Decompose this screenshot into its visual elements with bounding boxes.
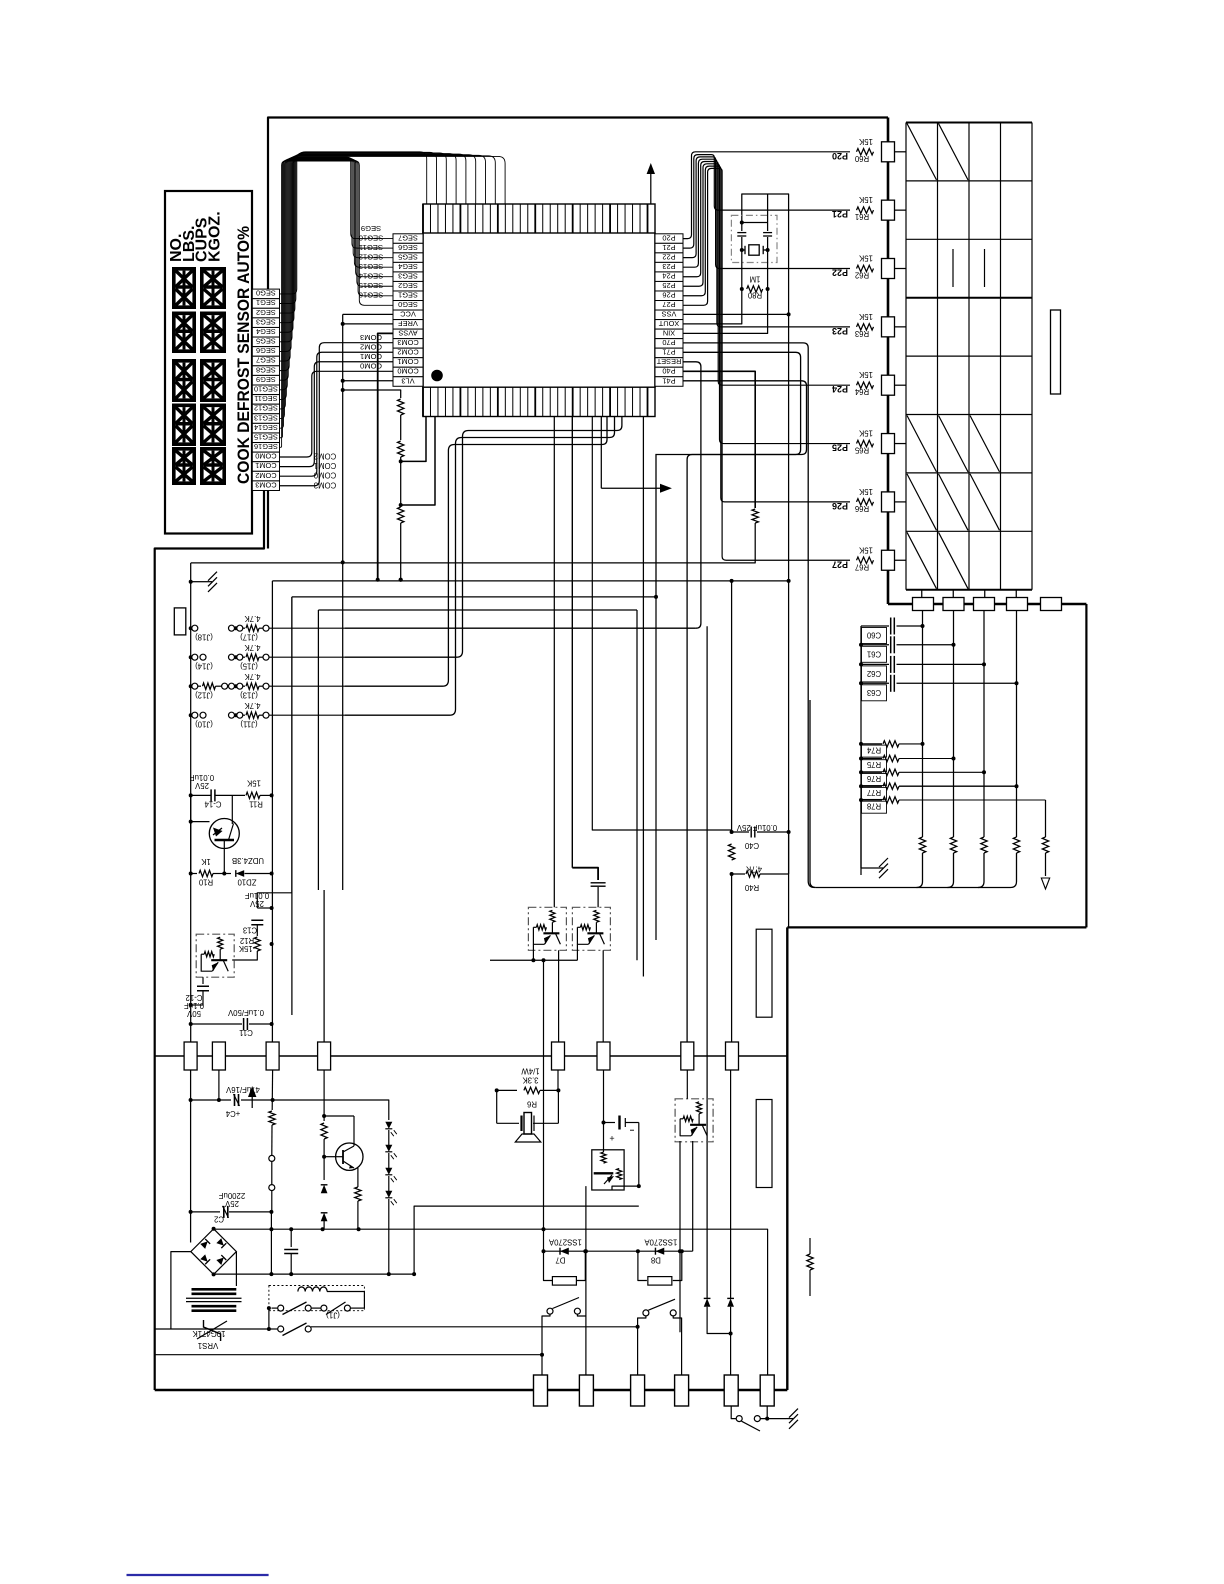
diode D7 1SS270A [542,1238,588,1286]
svg-text:COM3: COM3 [255,480,276,489]
node junction [341,560,345,564]
diode D8 1SS270A [636,1238,684,1286]
svg-text:15K: 15K [858,195,873,204]
svg-text:VSS: VSS [662,310,677,319]
wire [271,1125,273,1156]
svg-text:VREF: VREF [398,319,418,328]
capacitor C13 0.01uF 25V [243,891,274,936]
node junction [399,459,403,463]
wire [557,1070,559,1090]
resistor R67 15K [832,545,874,571]
connector pad [882,259,895,279]
svg-text:SEG11: SEG11 [359,243,383,252]
svg-text:COOK DEFROST SENSOR AUTO%: COOK DEFROST SENSOR AUTO% [234,226,253,484]
wire [730,1070,732,1298]
resistor R78 [859,797,1046,813]
resistor R64 15K [832,370,874,396]
svg-text:P20: P20 [832,151,848,161]
svg-text:4.7K: 4.7K [244,614,261,623]
wire [786,927,788,1390]
wire VSS down [788,314,790,927]
node junction [341,388,345,392]
node junction [584,1249,588,1253]
wire [553,417,555,908]
connector pad left [174,608,186,635]
wire [731,1406,736,1419]
svg-text:10G471K: 10G471K [192,1329,226,1338]
wire RESET [683,362,701,628]
wire [323,1221,325,1229]
wire [585,1186,587,1375]
svg-text:SEG10: SEG10 [359,233,383,242]
svg-text:1/4W: 1/4W [521,1067,540,1076]
svg-text:R40: R40 [744,883,759,892]
boundary pads [184,1042,738,1070]
svg-text:4.7K: 4.7K [244,643,261,652]
svg-text:COM3: COM3 [397,338,418,347]
wire [345,627,696,629]
wire [273,1100,389,1110]
svg-text:P71: P71 [662,348,675,357]
ground [861,800,876,868]
svg-text:SEG2: SEG2 [256,308,276,317]
svg-text:SEG16: SEG16 [254,442,278,451]
wire tap [401,417,435,506]
capacitor CX1 [741,223,743,232]
switch SW2 [636,1299,682,1375]
wire Q1 emitter [223,840,225,874]
resistor R10 1K [189,857,225,887]
resistor R77 [859,783,1019,799]
connector pad [882,550,895,570]
wire [311,1326,638,1328]
capacitor C14 0.01uF 25V [189,773,245,809]
svg-text:R61: R61 [855,212,869,221]
svg-text:P23: P23 [832,326,848,336]
svg-text:0.1uF: 0.1uF [184,1001,204,1010]
svg-text:P27: P27 [662,300,675,309]
svg-text:C60: C60 [866,631,881,640]
svg-text:AVSS: AVSS [398,329,417,338]
svg-text:SEG2: SEG2 [398,281,418,290]
svg-text:R11: R11 [249,800,263,809]
varistor VRS1 10G471K [192,1320,227,1350]
wire bus B [272,580,788,582]
resistor R63 15K [832,312,874,338]
U1 right pin boxes [655,233,683,386]
svg-text:RESET: RESET [656,357,681,366]
svg-text:SEG6: SEG6 [256,346,276,355]
svg-text:COM2: COM2 [397,348,418,357]
svg-text:SEG12: SEG12 [254,404,278,413]
svg-text:C11: C11 [239,1028,253,1037]
connector pad [882,375,895,395]
node junction [787,579,791,583]
resistor R74 [859,741,925,757]
wire P71 to diode [706,626,708,1298]
transistor Q6 (digital) dashed [675,1099,713,1142]
svg-text:25V: 25V [224,1199,239,1208]
node junction [678,1249,682,1253]
svg-text:P21: P21 [662,243,675,252]
wire [232,951,257,960]
wire [155,1389,788,1391]
wire C6x left rail [860,626,862,875]
svg-text:KGOZ.: KGOZ. [206,211,223,262]
svg-text:XIN: XIN [663,329,675,338]
capacitor CX2 [767,194,769,231]
microcontroller U1 body [423,204,655,417]
diode pair [704,1298,711,1306]
svg-text:SEG13: SEG13 [254,413,278,422]
connector pad [882,200,895,220]
svg-text:R77: R77 [867,788,881,797]
svg-text:(J15): (J15) [240,662,258,671]
wire [190,795,192,873]
svg-text:SEG0: SEG0 [398,300,418,309]
resistor ladder R1 [398,399,404,415]
wire [887,118,890,605]
svg-text:P40: P40 [662,367,675,376]
node VSS junction [787,312,791,316]
wire [271,581,273,1042]
svg-text:R76: R76 [867,774,881,783]
svg-text:SEG5: SEG5 [398,252,418,261]
jumper row (J10) (J11) 4.7K [189,701,345,729]
wire VCC [343,313,393,315]
wire [679,1141,681,1332]
wire [345,417,622,658]
resistor R6 3.3K 1/4W [495,1067,561,1109]
svg-text:SEG8: SEG8 [256,365,276,374]
svg-text:COM1: COM1 [255,461,276,470]
wire Q1 collector [231,795,233,824]
svg-text:C-12: C-12 [186,993,203,1002]
wire [787,926,1086,928]
buzzer BZ1 [497,1113,559,1143]
jumper row (J14) (J15) 4.7K [189,643,345,671]
wire bridge AC left [171,1252,191,1311]
svg-text:0.01uF: 0.01uF [190,773,215,782]
node junction [269,1227,273,1231]
wire XOUT [683,289,742,324]
svg-text:15K: 15K [858,487,873,496]
svg-text:R62: R62 [855,271,869,280]
resistor ladder R3 [398,507,404,523]
connector bar [1051,310,1061,394]
wire [612,1186,639,1190]
microcontroller U1 inner body [423,233,655,387]
resistor ladder R2 [398,441,404,457]
node junction [189,820,193,824]
wire [324,1156,335,1158]
svg-text:SEG14: SEG14 [254,423,278,432]
capacitor C12 0.1uF 50V [184,986,209,1018]
wire XIN [683,289,768,333]
wire matrix column 4 [1016,611,1018,838]
svg-text:UDZ4.3B: UDZ4.3B [232,856,264,865]
wire [686,1070,688,1099]
svg-text:P23: P23 [662,262,675,271]
switch SW3 [736,1406,786,1431]
svg-text:VCC: VCC [400,310,416,319]
transistor Q2 (digital) dashed [196,934,234,977]
display digit row 1 [172,267,196,309]
wire Q1 base [191,821,210,823]
display digit row 3 [172,359,196,402]
arrow down [1041,878,1049,889]
node junction [399,503,403,507]
key matrix [906,123,1032,590]
svg-text:P21: P21 [832,209,848,219]
svg-text:(J1): (J1) [326,1311,340,1320]
svg-text:P22: P22 [662,252,675,261]
svg-text:C2: C2 [214,1215,224,1224]
wire bus lower [214,1273,415,1275]
svg-text:47uF/16V: 47uF/16V [225,1085,260,1094]
wire [642,417,644,977]
resistor [321,1123,327,1139]
svg-text:SEG13: SEG13 [359,262,383,271]
arrow 5V [251,1093,253,1108]
wire bus C [292,596,656,598]
svg-text:1K: 1K [200,857,210,866]
svg-text:COM0: COM0 [360,361,382,370]
svg-text:SEG6: SEG6 [398,243,418,252]
svg-text:4.7K: 4.7K [745,865,762,874]
node junction [730,579,734,583]
svg-text:SEG7: SEG7 [256,356,276,365]
wire [414,1206,639,1274]
svg-text:0.1uF/50V: 0.1uF/50V [227,1008,264,1017]
svg-text:1M: 1M [750,275,761,284]
wire [692,1141,694,1251]
display pin header [252,289,279,491]
capacitor C4 47uF/16V [189,1085,275,1118]
capacitor C63 [859,675,1019,701]
svg-text:P22: P22 [832,268,848,278]
connector bar B2 [756,1100,772,1188]
wire [317,610,319,890]
thermistor battery symbol [604,1116,639,1144]
svg-text:R65: R65 [854,446,869,455]
transistor Q5 box [586,1150,624,1190]
svg-text:ZD10: ZD10 [237,878,257,887]
jumper row (J18) (J17) 4.7K [189,614,345,642]
svg-text:25V: 25V [194,781,209,790]
wire [895,151,907,153]
svg-text:SEG4: SEG4 [398,262,418,271]
transistor Q1 [209,819,239,849]
wire [1085,604,1087,927]
wire [345,417,615,716]
wire [400,415,402,440]
capacitor [290,1229,292,1247]
capacitor C62 [859,656,986,682]
transistor Q10 (digital) [528,907,566,950]
resistor R66 15K [832,487,874,513]
capacitor C2 2200uF 25V [189,1191,274,1224]
wire [170,1311,172,1329]
svg-text:VRS1: VRS1 [198,1341,218,1350]
wire tap [401,417,426,462]
ground [786,1409,798,1429]
display digit row 4 [172,404,196,447]
diode D2 [321,1213,328,1221]
svg-text:15K: 15K [858,545,873,554]
wire [155,1354,542,1356]
svg-text:C40: C40 [744,841,759,850]
wire [895,559,907,561]
resistor R76 [859,769,986,785]
relay J1 coil [269,1286,365,1311]
wire [400,457,402,506]
svg-text:P24: P24 [832,384,848,394]
bridge rectifier [191,1227,237,1277]
svg-text:P26: P26 [662,290,675,299]
wire AVSS [378,333,393,579]
node junction [602,1121,606,1125]
U1 top pin band [423,204,655,233]
footer line [127,1574,269,1576]
ground [191,581,205,583]
wire bus D [318,609,637,611]
svg-text:SEG1: SEG1 [256,298,276,307]
svg-text:COM0: COM0 [397,367,418,376]
wire matrix column 1 [922,611,924,838]
wire [291,597,293,1015]
svg-text:SEG4: SEG4 [256,327,276,336]
wire matrix column 2 [953,611,955,838]
svg-text:COM1: COM1 [360,352,382,361]
node junction [322,1155,326,1159]
wire [543,960,545,1251]
wire [496,1090,498,1123]
svg-text:15K: 15K [246,779,261,788]
svg-text:4.7K: 4.7K [244,701,261,710]
capacitor [591,882,606,884]
svg-text:(J17): (J17) [240,633,258,642]
wire [741,250,743,289]
svg-text:+: + [609,1133,614,1143]
capacitor C61 [859,636,956,662]
svg-text:50V: 50V [186,1009,201,1018]
wire [271,1190,273,1212]
svg-text:SEG11: SEG11 [254,394,277,403]
wire [190,1070,192,1243]
svg-text:1SS270A: 1SS270A [548,1238,582,1247]
relay J1 contacts [267,1292,365,1336]
wire P70 [683,343,815,888]
svg-text:P25: P25 [662,281,675,290]
resistor R75 [859,755,956,771]
svg-text:R80: R80 [747,291,762,300]
crystal X1 box [731,215,777,262]
wire [323,1139,325,1180]
wire [638,1123,640,1187]
wire [895,326,907,328]
resistor R60 15K [832,137,874,163]
wire [895,384,907,386]
wire [257,597,292,908]
wire D7 D8 row [544,1250,693,1252]
wire [636,610,638,960]
svg-text:(J14): (J14) [195,662,213,671]
wire [571,417,573,868]
display digit row 2 [172,312,196,354]
resistor R61 15K [832,195,874,221]
svg-text:COM1: COM1 [397,357,418,366]
node junction [376,578,380,582]
wire [324,1115,354,1117]
wire busA P40 [191,523,756,563]
resistor R80 1M [740,275,770,300]
node junction [637,1184,641,1188]
wire [731,581,733,832]
svg-text:15K: 15K [858,312,873,321]
connector pad [882,317,895,337]
svg-text:SEG9: SEG9 [361,224,381,233]
transistor Q3 [335,1143,363,1170]
node VL3 junction [341,379,345,383]
svg-text:C62: C62 [867,669,881,678]
U1 pin 1 dot [431,370,443,382]
wire [155,1055,788,1057]
wire [895,501,907,503]
resistor R62 15K [832,254,874,280]
wire bridge AC right [235,1252,237,1286]
wire elbow to cap [572,868,598,880]
svg-text:R12: R12 [240,936,254,945]
svg-text:R75: R75 [866,760,881,769]
wire [603,1070,605,1152]
svg-text:P27: P27 [832,559,848,569]
LED chain [385,1110,397,1274]
resistor [809,1238,811,1254]
wire [707,1307,731,1334]
svg-text:25V: 25V [249,899,264,908]
svg-text:COM2: COM2 [255,471,276,480]
capacitor C60 [861,618,925,644]
node junction [399,578,403,582]
wire [270,1212,272,1274]
wire [592,417,731,831]
svg-text:SEG15: SEG15 [359,281,383,290]
svg-text:(J10): (J10) [195,720,213,729]
wire [895,268,907,270]
wire [576,944,578,960]
wire [895,209,907,211]
wire [155,1328,272,1330]
node junction [531,958,535,962]
wire VSS loop [742,194,789,315]
U1 bottom pin band [423,387,655,417]
wire bundle display SEG0-16 to U1 [280,152,506,448]
svg-text:SEG15: SEG15 [254,432,278,441]
wire [557,1090,559,1123]
pullup resistors bottom [917,837,1020,888]
svg-text:4.7K: 4.7K [244,672,261,681]
matrix bottom pads [913,590,1062,611]
svg-text:+C4: +C4 [225,1109,240,1118]
wire [155,483,264,1390]
wire VL3 [343,380,393,382]
svg-text:C13: C13 [243,926,257,935]
wire arrow VLC [600,417,602,489]
wire P71 [656,352,801,597]
capacitor C40 0.01uF 25V [730,823,791,850]
wire [400,523,402,580]
